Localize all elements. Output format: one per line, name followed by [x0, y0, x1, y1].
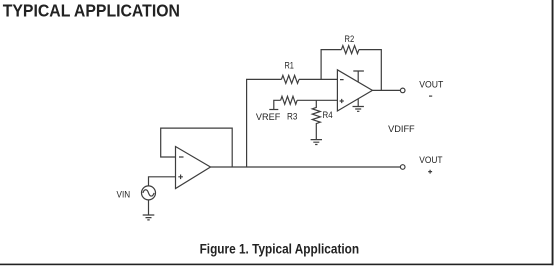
wire: R1 to U1 inverting input [299, 78, 337, 80]
svg-text:R4: R4 [323, 110, 333, 121]
wire: buffer output to R1 (vertical riser and horizontal to R1) [247, 79, 282, 167]
plus sign of VOUT+ [428, 170, 432, 174]
wire: U1 output [372, 89, 400, 91]
op-amp U1 [337, 70, 372, 111]
svg-text:TYPICAL APPLICATION: TYPICAL APPLICATION [3, 1, 180, 21]
resistor R4 [312, 100, 320, 139]
svg-text:R2: R2 [345, 34, 355, 45]
resistor R2 [341, 46, 359, 54]
terminal VOUT- [400, 88, 405, 93]
svg-text:R3: R3 [287, 111, 297, 122]
wire: R2 to output right vertical [359, 50, 381, 91]
source VIN [142, 186, 156, 200]
svg-text:Figure 1. Typical Application: Figure 1. Typical Application [200, 242, 360, 258]
wire: U2 feedback loop [161, 128, 233, 167]
svg-text:VIN: VIN [117, 190, 131, 201]
node: VREF terminal [274, 100, 281, 109]
svg-text:VREF: VREF [256, 112, 281, 123]
minus sign of VOUT- [429, 95, 432, 97]
wire: U2 output to VOUT+ [211, 166, 401, 168]
page right border [552, 0, 554, 265]
resistor R1 [281, 75, 299, 83]
svg-text:VDIFF: VDIFF [388, 124, 415, 135]
wire: VIN to U2 non-inverting input [149, 177, 176, 186]
op-amp U2 (input buffer) [176, 147, 211, 189]
page bottom border [0, 264, 553, 266]
ground (below R4) [311, 140, 322, 145]
wire: R3 to U1 non-inverting input [297, 99, 337, 101]
wire: R2 feedback left vertical [321, 50, 341, 80]
ground (below VIN) [143, 215, 155, 220]
terminal VOUT+ [400, 165, 405, 170]
svg-text:VOUT: VOUT [419, 80, 443, 91]
power supply V+ of U1 [353, 71, 364, 82]
svg-text:VOUT: VOUT [419, 155, 442, 166]
svg-text:R1: R1 [285, 60, 294, 71]
ground (U1 negative supply) [353, 99, 364, 112]
resistor R3 [281, 96, 298, 104]
wire: VIN source to ground [148, 200, 150, 215]
